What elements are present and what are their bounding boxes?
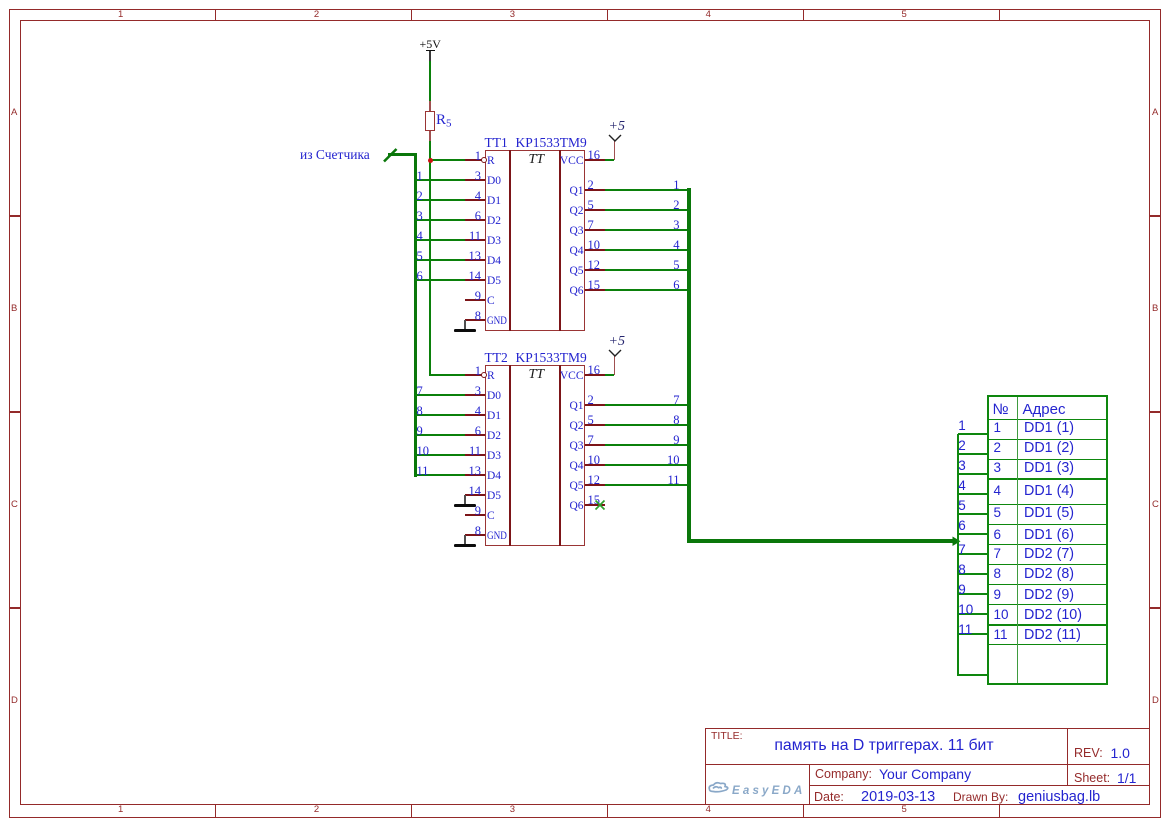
svg-text:EasyEDA: EasyEDA (732, 785, 806, 797)
